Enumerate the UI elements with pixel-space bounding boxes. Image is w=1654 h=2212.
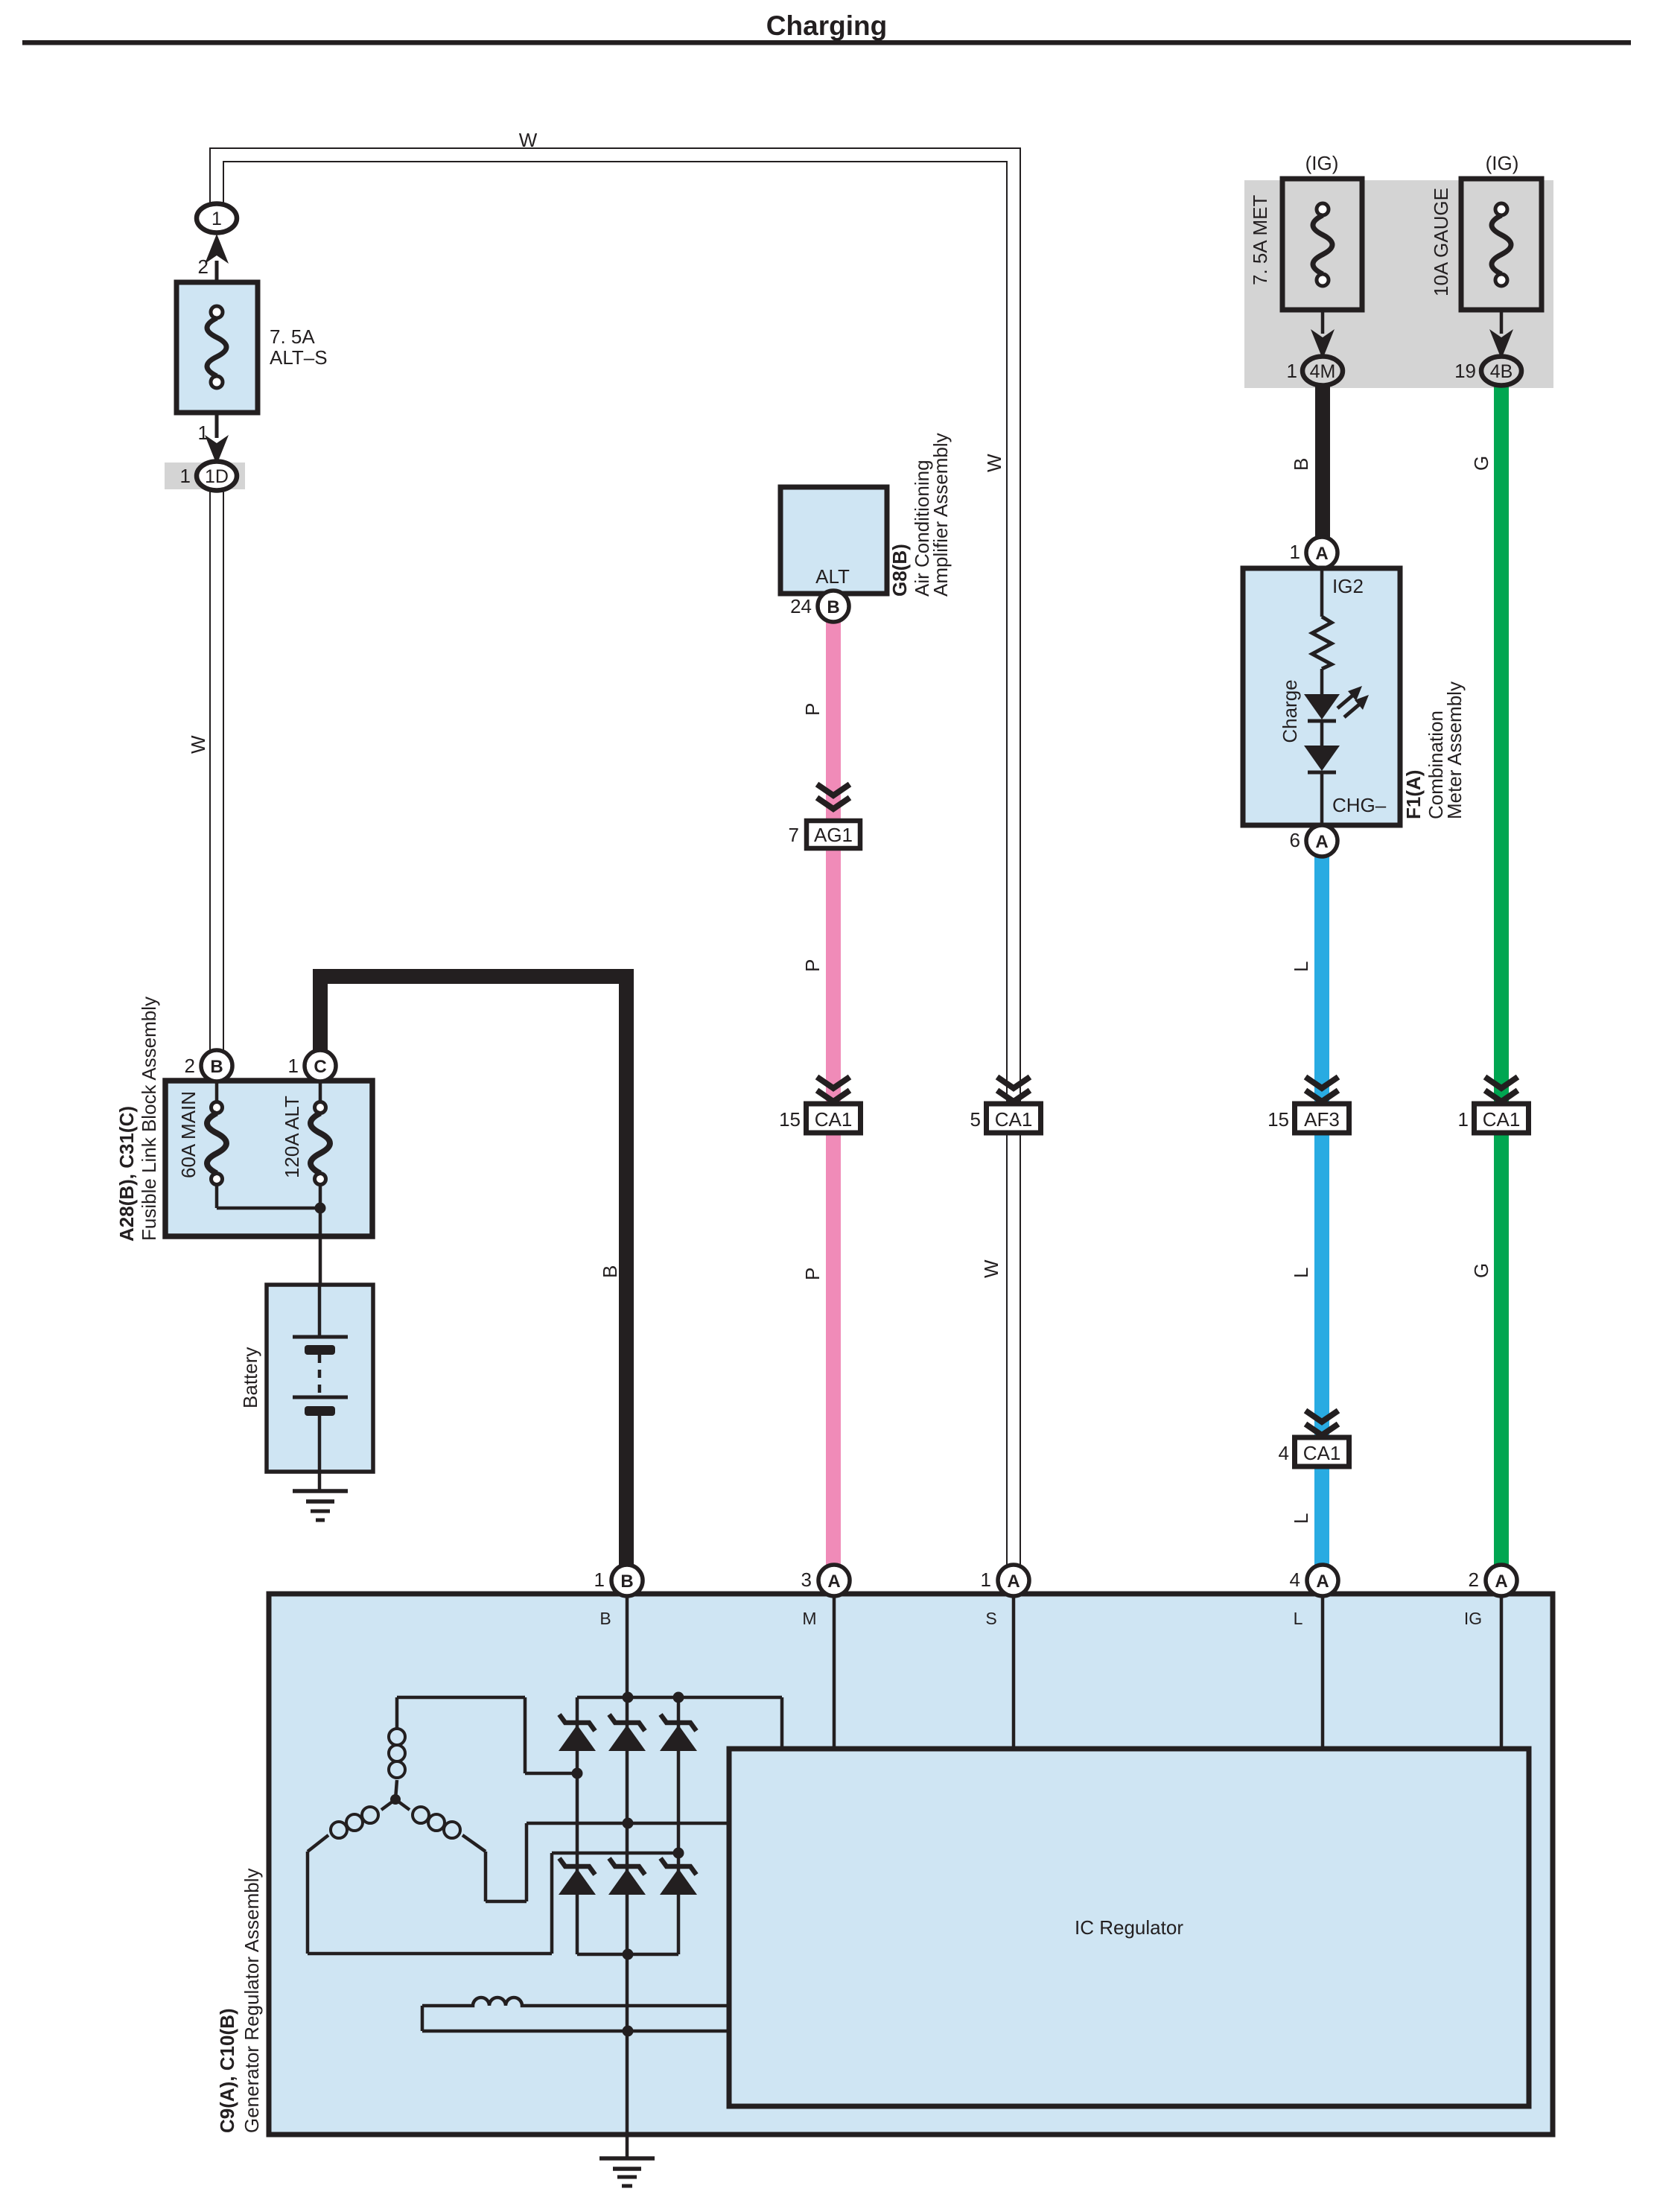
svg-text:5: 5 [970,1108,981,1131]
svg-text:CHG–: CHG– [1332,794,1387,816]
svg-text:G: G [1470,1263,1492,1278]
svg-text:1: 1 [594,1569,605,1591]
svg-text:L: L [1294,1609,1303,1628]
svg-text:P: P [801,1268,824,1280]
svg-text:A: A [1316,1571,1329,1592]
svg-text:IG: IG [1464,1609,1482,1628]
svg-text:A28(B), C31(C): A28(B), C31(C) [115,1106,138,1242]
svg-text:L: L [1290,962,1312,972]
svg-text:7. 5A: 7. 5A [270,325,315,348]
svg-text:2: 2 [198,255,209,278]
svg-text:1D: 1D [205,466,229,487]
svg-text:4: 4 [1290,1569,1300,1591]
svg-text:B: B [599,1265,621,1278]
svg-text:C9(A), C10(B): C9(A), C10(B) [216,2008,238,2133]
svg-text:CA1: CA1 [995,1108,1033,1131]
svg-text:Meter Assembly: Meter Assembly [1443,681,1466,819]
svg-text:1: 1 [1287,360,1297,382]
svg-text:CA1: CA1 [815,1108,853,1131]
svg-text:7. 5A MET: 7. 5A MET [1249,195,1271,285]
svg-text:W: W [187,735,209,754]
svg-text:L: L [1290,1268,1312,1278]
svg-text:P: P [801,703,824,716]
svg-text:S: S [985,1609,996,1628]
svg-text:(IG): (IG) [1486,152,1519,174]
svg-text:CA1: CA1 [1303,1442,1341,1464]
svg-text:(IG): (IG) [1305,152,1339,174]
svg-text:B: B [620,1571,633,1592]
svg-text:IG2: IG2 [1332,575,1364,597]
svg-text:Fusible Link Block Assembly: Fusible Link Block Assembly [138,997,160,1241]
svg-text:ALT–S: ALT–S [270,346,328,369]
svg-text:A: A [1315,832,1328,852]
svg-text:B: B [599,1609,611,1628]
svg-text:Charging: Charging [766,10,887,41]
svg-text:G8(B): G8(B) [888,544,911,597]
svg-text:15: 15 [1267,1108,1289,1131]
svg-text:B: B [210,1057,223,1077]
svg-text:CA1: CA1 [1483,1108,1521,1131]
svg-text:W: W [519,129,538,151]
svg-text:15: 15 [779,1108,801,1131]
svg-text:1: 1 [1290,541,1300,563]
svg-text:A: A [1495,1571,1507,1592]
svg-text:G: G [1470,456,1492,471]
svg-text:4: 4 [1279,1442,1289,1464]
svg-text:1: 1 [180,465,191,487]
svg-text:1: 1 [981,1569,991,1591]
svg-text:2: 2 [1469,1569,1479,1591]
svg-text:2: 2 [185,1055,195,1077]
svg-text:120A ALT: 120A ALT [281,1096,303,1178]
svg-text:60A MAIN: 60A MAIN [177,1091,200,1178]
svg-text:6: 6 [1290,829,1300,851]
svg-text:C: C [314,1057,326,1077]
svg-text:Charge: Charge [1279,679,1301,743]
svg-text:4B: 4B [1490,361,1513,382]
svg-text:F1(A): F1(A) [1402,770,1425,819]
svg-text:W: W [980,1259,1002,1278]
svg-text:ALT: ALT [815,565,850,588]
svg-text:A: A [1007,1571,1020,1592]
svg-text:1: 1 [1458,1108,1469,1131]
svg-text:IC Regulator: IC Regulator [1075,1916,1183,1939]
svg-text:7: 7 [789,824,799,846]
svg-text:B: B [827,597,839,617]
svg-text:Generator Regulator Assembly: Generator Regulator Assembly [241,1868,263,2133]
svg-text:P: P [801,959,824,972]
svg-text:AF3: AF3 [1304,1108,1340,1131]
svg-text:24: 24 [790,595,812,617]
svg-text:AG1: AG1 [814,824,853,846]
svg-text:10A GAUGE: 10A GAUGE [1430,188,1452,296]
svg-text:Battery: Battery [239,1347,261,1408]
svg-text:B: B [1290,458,1312,471]
svg-text:1: 1 [198,422,209,444]
svg-text:3: 3 [801,1569,812,1591]
svg-text:Amplifier Assembly: Amplifier Assembly [929,433,952,597]
svg-text:L: L [1290,1513,1312,1524]
svg-text:1: 1 [288,1055,299,1077]
svg-text:W: W [983,454,1005,472]
svg-text:A: A [1315,544,1328,564]
svg-text:4M: 4M [1310,361,1336,382]
svg-text:A: A [827,1571,840,1592]
svg-text:19: 19 [1454,360,1476,382]
svg-text:1: 1 [211,209,222,229]
svg-text:M: M [802,1609,816,1628]
